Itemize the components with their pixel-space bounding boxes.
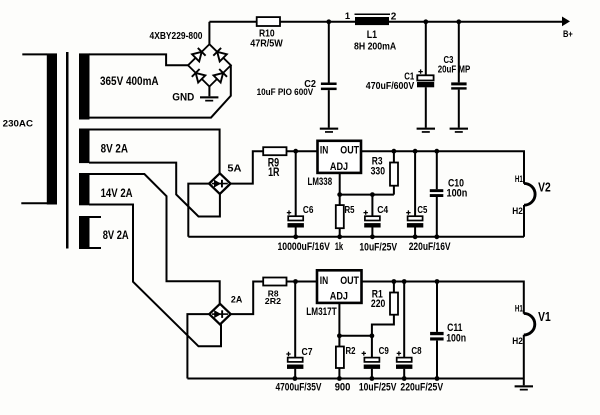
svg-text:220uF/25V: 220uF/25V <box>400 381 443 393</box>
svg-text:230AC: 230AC <box>3 119 33 130</box>
svg-text:20uF MP: 20uF MP <box>438 64 471 75</box>
svg-text:IN: IN <box>320 275 328 287</box>
svg-text:L1: L1 <box>367 29 377 41</box>
svg-text:1k: 1k <box>335 241 344 253</box>
svg-text:H1: H1 <box>515 174 523 184</box>
svg-text:220uF/16V: 220uF/16V <box>409 241 451 253</box>
svg-text:IN: IN <box>320 145 328 157</box>
svg-text:8V 2A: 8V 2A <box>103 228 129 242</box>
svg-text:10000uF/16V: 10000uF/16V <box>278 241 331 253</box>
svg-text:47R/5W: 47R/5W <box>250 39 283 50</box>
svg-text:2: 2 <box>391 12 397 23</box>
svg-text:4700uF/35V: 4700uF/35V <box>276 381 323 393</box>
svg-text:470uF/600V: 470uF/600V <box>366 81 415 92</box>
svg-text:C7: C7 <box>302 346 313 358</box>
svg-text:H1: H1 <box>515 304 523 314</box>
svg-text:OUT: OUT <box>340 145 359 157</box>
svg-text:C8: C8 <box>411 345 421 357</box>
svg-text:330: 330 <box>371 165 385 177</box>
svg-text:4XBY229-800: 4XBY229-800 <box>150 31 203 42</box>
svg-text:100n: 100n <box>446 332 466 344</box>
svg-text:LM338: LM338 <box>308 176 333 188</box>
svg-text:ADJ: ADJ <box>330 290 348 302</box>
svg-text:GND: GND <box>172 91 194 103</box>
svg-text:V1: V1 <box>538 309 551 324</box>
svg-text:C5: C5 <box>417 204 427 216</box>
svg-text:C9: C9 <box>379 345 389 357</box>
svg-text:900: 900 <box>335 381 351 393</box>
svg-text:ADJ: ADJ <box>330 161 348 173</box>
svg-text:8H 200mA: 8H 200mA <box>354 42 397 53</box>
svg-text:V2: V2 <box>538 181 551 195</box>
svg-text:2R2: 2R2 <box>265 296 282 306</box>
svg-text:100n: 100n <box>447 188 468 200</box>
svg-text:1R: 1R <box>268 166 280 179</box>
svg-text:C6: C6 <box>303 204 314 216</box>
svg-text:2A: 2A <box>231 294 243 305</box>
svg-text:8V 2A: 8V 2A <box>101 141 128 155</box>
svg-text:C4: C4 <box>377 204 388 216</box>
svg-text:H2: H2 <box>512 336 523 346</box>
svg-text:365V 400mA: 365V 400mA <box>100 75 159 88</box>
svg-text:H2: H2 <box>512 206 523 216</box>
svg-text:5A: 5A <box>227 163 242 174</box>
svg-text:10uF PIO 600V: 10uF PIO 600V <box>257 86 314 97</box>
svg-text:1: 1 <box>345 10 350 21</box>
svg-text:14V 2A: 14V 2A <box>101 186 133 200</box>
svg-text:R5: R5 <box>345 204 355 216</box>
svg-text:OUT: OUT <box>340 275 359 287</box>
svg-text:B+: B+ <box>563 29 573 39</box>
svg-text:220: 220 <box>371 298 385 310</box>
svg-text:10uF/25V: 10uF/25V <box>359 381 397 393</box>
svg-text:R2: R2 <box>346 345 356 357</box>
svg-text:10uF/25V: 10uF/25V <box>359 242 397 254</box>
svg-text:LM317T: LM317T <box>306 306 336 318</box>
